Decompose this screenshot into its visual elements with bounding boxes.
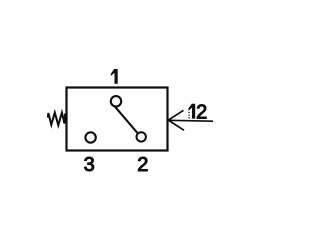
pin 2 label	[137, 154, 148, 176]
switch body S1 (rectangle)	[67, 88, 168, 151]
actuator arrow (operating direction arrowhead)	[168, 110, 213, 130]
svg-text:3: 3	[84, 154, 95, 176]
contact pin 2 (normally-open terminal circle)	[137, 132, 146, 141]
contact pin 1 (common terminal circle)	[111, 96, 121, 106]
label 12 (actuator designation)	[188, 102, 207, 124]
pin 3 label	[84, 154, 95, 176]
wire: switch lever from contact 1 to contact 2	[115, 107, 137, 133]
svg-text:2: 2	[196, 102, 207, 124]
pin 1 label	[111, 69, 118, 84]
spring (spring-return symbol on left side)	[48, 113, 66, 126]
contact pin 3 (normally-closed terminal circle)	[85, 132, 95, 142]
svg-text:2: 2	[137, 154, 148, 176]
